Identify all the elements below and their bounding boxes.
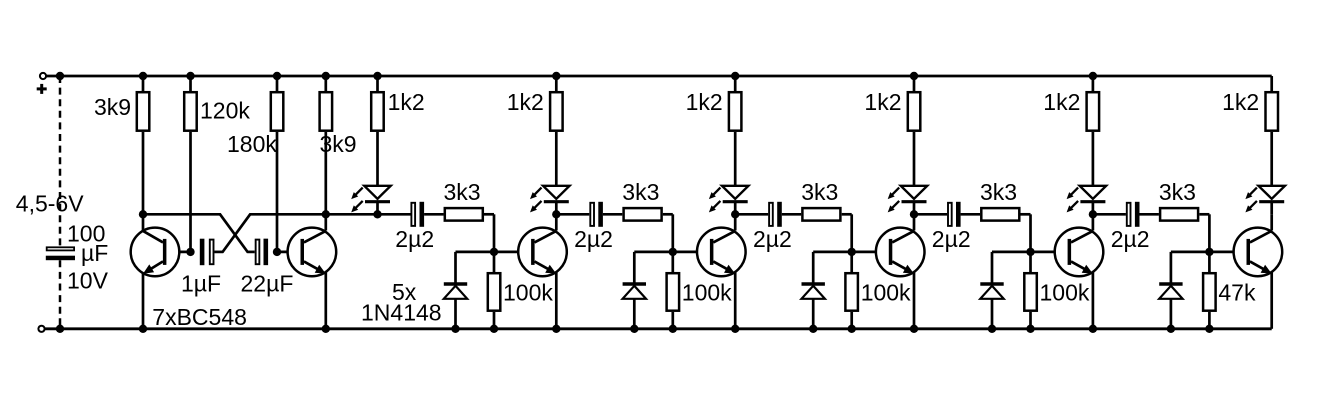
svg-text:1µF: 1µF [181,271,221,297]
resistor R5 1k2 [376,76,379,91]
wire: R1 to Q1 collector node [142,132,145,231]
svg-text:2µ2: 2µ2 [1111,226,1150,252]
LED D16 LED6 [1259,186,1285,199]
svg-text:1N4148: 1N4148 [361,299,442,325]
LED5 emission arrows [1070,188,1078,196]
transistor Q6 BC548 [1055,228,1104,277]
transistor Q2 BC548 [288,228,337,277]
resistor R17 100k [671,252,674,272]
svg-text:100k: 100k [861,279,911,305]
svg-text:1k2: 1k2 [864,89,901,115]
resistor R12 3k3 [624,208,662,221]
wire: R8 to LED4 [913,132,916,186]
diode D7 1N4148 [633,252,636,284]
resistor R14 3k3 [981,208,1019,221]
svg-text:1k2: 1k2 [388,89,425,115]
wire: Q4 emitter to ground [734,273,737,329]
wire: C6 to R13 [782,213,801,216]
svg-text:3k3: 3k3 [801,179,838,205]
svg-text:1k2: 1k2 [507,89,544,115]
wire: Q4 collector to LED3 node [734,214,737,230]
resistor R16 100k [493,252,496,272]
diode D6 1N4148 [454,252,457,284]
svg-text:1k2: 1k2 [686,89,723,115]
wire: top supply rail [46,75,1272,78]
wire: LED5 node to C8 [1093,213,1126,216]
wire: base node horizontal [1171,251,1249,254]
LED6 emission arrows [1249,188,1257,196]
svg-text:1k2: 1k2 [1222,89,1259,115]
svg-text:3k9: 3k9 [94,94,131,120]
wire: LED5 cathode to node [1092,202,1095,215]
resistor R8 1k2 [913,76,916,91]
resistor R11 3k3 [445,208,483,221]
svg-text:100k: 100k [503,279,553,305]
wire: LED1 cathode to node [376,202,379,215]
svg-text:3k3: 3k3 [622,179,659,205]
junction dots: ground rail [56,325,64,333]
svg-text:3k3: 3k3 [1159,179,1196,205]
junction dots: base row [186,248,194,256]
LED2 emission arrows [534,188,542,196]
wire: R10 to LED6 [1270,132,1273,186]
svg-text:2µ2: 2µ2 [932,226,971,252]
resistor R7 1k2 [734,76,737,91]
transistor Q1 BC548 [131,228,180,277]
svg-text:2µ2: 2µ2 [574,226,613,252]
wire: C8 to R15 [1140,213,1159,216]
svg-text:100k: 100k [682,279,732,305]
terminal: - supply (open circle) [38,326,44,332]
wire: Q3 emitter to ground [555,273,558,329]
label: + polarity sign [37,87,47,90]
resistor R10 1k2 [1270,76,1273,91]
wire: R6 to LED2 [555,132,558,186]
wire: LED2 node to C5 [556,213,589,216]
resistor R19 100k [1029,252,1032,272]
svg-text:180k: 180k [227,131,277,157]
wire: LED4 cathode to node [913,202,916,215]
diode D10 1N4148 [1170,252,1173,284]
junction dots: LED node row [139,210,147,218]
wire: LED3 cathode to node [734,202,737,215]
svg-text:4,5-6V: 4,5-6V [16,191,84,217]
svg-text:3k3: 3k3 [980,179,1017,205]
wire: R9 to LED5 [1092,132,1095,186]
wire: Q5 emitter to ground [913,273,916,329]
wire: Q2 emitter to ground [324,273,327,329]
wire: R5 to LED1 [376,132,379,186]
wire: R14 to base node [1021,213,1031,216]
junction dots: top rail [56,72,64,80]
wire: C5 to R12 [603,213,622,216]
transistor Q7 BC548 [1234,228,1283,277]
svg-text:47k: 47k [1218,279,1256,305]
capacitor C1 100uF electrolytic [47,247,74,250]
LED D11 LED1 [364,186,390,199]
LED D13 LED3 [722,186,748,199]
terminal: + supply (open circle) [40,73,46,79]
wire: Q7 emitter to ground [1270,273,1273,329]
wire: Q1 base lead [167,251,191,254]
wire: battery dashed line upper [59,76,62,246]
LED D15 LED5 [1080,186,1106,199]
wire: C4 to R11 [424,213,443,216]
capacitor C2 1uF [200,239,205,266]
wire: Q6 emitter to ground [1092,273,1095,329]
wire: LED1 node to C4 [378,213,411,216]
wire: LED4 node to C7 [914,213,947,216]
resistor R2 120k [189,76,192,91]
svg-text:100k: 100k [1040,279,1090,305]
wire: bottom ground rail [45,327,1272,330]
resistor R18 100k [850,252,853,272]
wire: Q1 emitter to ground [142,273,145,329]
svg-text:22µF: 22µF [241,271,294,297]
capacitor C4 2u2 [420,202,425,227]
wire: C7 to R14 [961,213,980,216]
LED3 emission arrows [713,188,721,196]
wire: Q2 base lead [277,251,302,254]
resistor R9 1k2 [1092,76,1095,91]
diode D8 1N4148 [812,252,815,284]
wire: R12 to base node [663,213,673,216]
LED4 emission arrows [891,188,899,196]
wire: base node horizontal [634,251,712,254]
resistor R1 3k9 [142,76,145,91]
wire: base node horizontal [456,251,534,254]
svg-text:1k2: 1k2 [1043,89,1080,115]
LED1 emission arrows [355,188,363,196]
wire: R2 to Q1 base [189,132,192,252]
resistor R13 3k3 [802,208,840,221]
wire: R15 to base node [1199,213,1209,216]
wire: base node horizontal [992,251,1070,254]
wire: LED6 cathode to node [1270,202,1273,215]
svg-text:3k3: 3k3 [444,179,481,205]
capacitor C7 2u2 [956,202,961,227]
diode D9 1N4148 [991,252,994,284]
wire: Q5 collector to LED4 node [913,214,916,230]
resistor R6 1k2 [555,76,558,91]
wire: Q1 collector node to C3 (cross-coupling) [143,213,221,216]
capacitor C3 22uF [256,240,260,265]
resistor R4 3k9 [324,76,327,91]
wire: R3 to Q2 base [276,132,279,252]
resistor R3 180k [276,76,279,91]
capacitor C6 2u2 [777,202,782,227]
capacitor C8 2u2 [1135,202,1140,227]
svg-text:120k: 120k [200,98,250,124]
wire: C2 to Q2 collector node (cross-coupling) [214,251,223,254]
transistor Q4 BC548 [697,228,746,277]
wire: Q2 collector node to LED1 node [326,213,378,216]
wire: Q6 collector to LED5 node [1092,214,1095,230]
LED D14 LED4 [901,186,927,199]
wire: LED3 node to C6 [735,213,768,216]
wire: R4 to Q2 collector node [324,132,327,231]
LED D12 LED2 [543,186,569,199]
wire: base node horizontal [813,251,891,254]
wire: R11 to base node [484,213,494,216]
wire: LED2 cathode to node [555,202,558,215]
wire: Q7 collector to LED6 node [1270,214,1273,230]
svg-text:7xBC548: 7xBC548 [152,304,247,330]
svg-text:10V: 10V [67,268,109,294]
capacitor C5 2u2 [598,202,603,227]
wire: battery dashed line lower [59,260,62,329]
transistor Q5 BC548 [876,228,925,277]
resistor R15 3k3 [1160,208,1198,221]
transistor Q3 BC548 [518,228,567,277]
svg-text:µF: µF [81,240,108,266]
resistor R20 47k [1208,252,1211,272]
wire: R7 to LED3 [734,132,737,186]
svg-text:2µ2: 2µ2 [395,226,434,252]
svg-text:2µ2: 2µ2 [753,226,792,252]
wire: Q3 collector to LED2 node [555,214,558,230]
wire: R13 to base node [842,213,852,216]
